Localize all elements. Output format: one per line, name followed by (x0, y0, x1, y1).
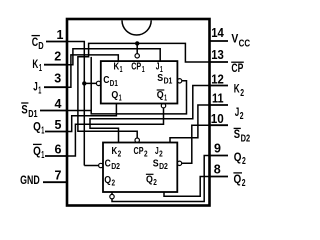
pin 6 lead (45, 155, 67, 157)
pin 14 lead (210, 40, 229, 42)
wire pin12 to K2 stub (90, 86, 210, 143)
svg-text:C: C (105, 158, 111, 169)
svg-text:2: 2 (240, 111, 244, 122)
wire pin11 to J2 stub (170, 105, 210, 143)
wire Q2bar output to pin8 (164, 177, 210, 197)
svg-text:GND: GND (20, 173, 40, 187)
svg-text:S: S (21, 103, 27, 117)
wire Q1 output to pin5 (67, 104, 116, 132)
svg-text:Q: Q (104, 175, 111, 186)
pin 10 lead (210, 124, 229, 126)
svg-text:2: 2 (112, 178, 116, 188)
svg-text:9: 9 (214, 142, 221, 156)
svg-text:1: 1 (41, 150, 44, 161)
wire Q2 output to pin9 (112, 156, 210, 202)
pin 9 lead (210, 155, 229, 157)
svg-text:CP: CP (134, 146, 144, 157)
svg-text:D2: D2 (111, 161, 120, 171)
svg-text:C: C (103, 75, 109, 86)
inverter bubble CP2 input (135, 138, 139, 142)
svg-text:1: 1 (57, 28, 64, 42)
wire SD2 net from pin10 (182, 125, 210, 163)
svg-text:8: 8 (214, 163, 221, 177)
svg-text:D2: D2 (159, 161, 168, 171)
svg-text:1: 1 (41, 125, 44, 136)
inverter bubble Q1bar output (161, 104, 165, 108)
svg-text:7: 7 (55, 169, 62, 183)
pin 1 lead (46, 41, 67, 43)
pin 5 lead (45, 131, 67, 133)
svg-text:Q: Q (33, 119, 41, 133)
inverter bubble SD1 input (177, 79, 181, 83)
svg-text:1: 1 (38, 86, 41, 97)
svg-text:12: 12 (211, 72, 224, 86)
svg-text:D2: D2 (241, 134, 251, 145)
svg-text:CC: CC (239, 39, 251, 50)
svg-text:2: 2 (242, 178, 246, 189)
flip-flop FF1 block (101, 61, 178, 103)
junction dot clock (135, 41, 139, 45)
inverter bubble CD1 input (96, 81, 100, 85)
svg-text:CP: CP (131, 62, 141, 73)
inverter bubble CP1 input (135, 54, 139, 58)
svg-text:1: 1 (142, 64, 145, 74)
wire pin2 to J1 stub (67, 49, 160, 65)
svg-text:Q: Q (146, 175, 153, 186)
svg-text:2: 2 (159, 148, 163, 158)
svg-text:K: K (32, 57, 38, 71)
pin 3 lead (44, 86, 67, 88)
IC package outline U1 (67, 19, 210, 206)
svg-text:2: 2 (118, 148, 122, 158)
notch (pin-1 index mark) (122, 20, 151, 35)
wire CP clock net from pin13 (78, 43, 210, 138)
svg-text:S: S (234, 127, 240, 141)
wire SD1 net from pin4 (67, 57, 187, 114)
svg-text:4: 4 (55, 97, 62, 111)
pin 11 lead (210, 104, 229, 106)
svg-text:1: 1 (119, 93, 122, 103)
wire pin3 to K1 stub (67, 55, 118, 87)
pin 4 lead (40, 110, 67, 112)
svg-text:2: 2 (240, 88, 244, 99)
svg-text:14: 14 (211, 26, 224, 40)
inverter bubble CD2 input (99, 163, 103, 167)
svg-text:Q: Q (157, 90, 164, 101)
svg-text:K: K (234, 82, 240, 96)
svg-text:J: J (33, 80, 38, 94)
wire Q1bar output to pin6 (67, 108, 164, 156)
svg-text:Q: Q (234, 150, 242, 164)
svg-text:1: 1 (164, 93, 167, 103)
svg-text:Q: Q (234, 172, 242, 186)
svg-text:CP: CP (231, 61, 243, 75)
wire clock stub to CP1 bubble (136, 43, 138, 53)
svg-text:13: 13 (211, 48, 224, 62)
svg-text:D1: D1 (164, 76, 173, 86)
svg-text:6: 6 (55, 143, 62, 157)
svg-text:2: 2 (242, 156, 246, 167)
svg-text:1: 1 (39, 63, 42, 74)
svg-text:V: V (231, 31, 238, 45)
svg-text:Q: Q (33, 144, 41, 158)
svg-text:10: 10 (211, 112, 224, 126)
inverter bubble SD2 input (177, 161, 181, 165)
svg-text:3: 3 (54, 72, 61, 86)
junction dot CD net (82, 81, 86, 85)
svg-text:2: 2 (54, 49, 61, 63)
pin 12 lead (210, 85, 229, 87)
svg-text:S: S (153, 159, 159, 170)
svg-text:1: 1 (120, 64, 123, 74)
pin 2 lead (44, 64, 67, 66)
pin 7 lead (43, 181, 67, 183)
svg-text:J: J (235, 105, 240, 119)
svg-text:S: S (157, 73, 163, 84)
pin 13 lead (210, 61, 229, 63)
svg-text:2: 2 (144, 148, 148, 158)
svg-text:D1: D1 (110, 78, 118, 88)
svg-text:2: 2 (153, 177, 157, 187)
flip-flop FF2 block (103, 143, 177, 193)
pin 8 lead (210, 176, 229, 178)
svg-text:D: D (38, 41, 43, 52)
svg-text:11: 11 (212, 92, 224, 106)
svg-text:Q: Q (111, 90, 118, 101)
inverter bubble Q2 bottom output (110, 194, 114, 198)
svg-text:5: 5 (55, 118, 62, 132)
wire CD net from pin1 to CD1 and CD2 (67, 42, 98, 166)
